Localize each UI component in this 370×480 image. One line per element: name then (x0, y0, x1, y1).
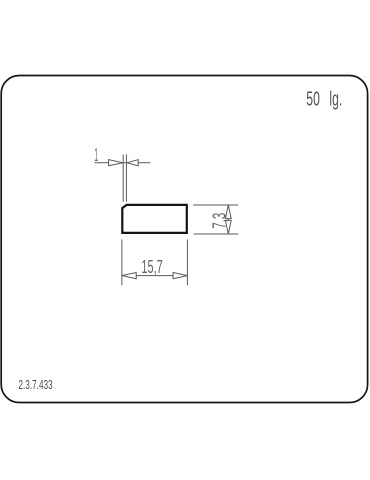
dimension 1 dimension line (95, 162, 151, 164)
svg-text:1: 1 (94, 144, 98, 165)
dimension 7,3 top arrowhead (225, 205, 231, 219)
dimension 1 right arrowhead (127, 160, 138, 166)
dimension 15,7 dimension line (122, 275, 187, 277)
dimension 1 left arrowhead (109, 160, 123, 166)
part outline: bar cross-section with chamfered top-left corner (122, 205, 187, 233)
svg-text:7,3: 7,3 (208, 213, 229, 229)
dimension 7,3 extension line top (193, 204, 238, 206)
svg-text:15,7: 15,7 (141, 256, 162, 277)
dimension 7,3 extension line bottom (194, 233, 239, 235)
dimension 1 extension line left (122, 155, 124, 202)
dimension 15,7 left arrowhead (122, 273, 136, 279)
dimension 1 extension line right (125, 155, 127, 202)
dimension 15,7 right arrowhead (173, 273, 187, 279)
svg-text:2.3.7.433: 2.3.7.433 (18, 377, 52, 392)
dimension 7,3 bottom arrowhead (225, 220, 231, 234)
dimension 15,7 extension line right (186, 239, 188, 285)
dimension 7,3 dimension line (227, 205, 229, 234)
dimension 15,7 extension line left (121, 239, 123, 285)
svg-text:50: 50 (306, 88, 320, 111)
svg-text:lg.: lg. (329, 88, 342, 111)
drawing sheet frame (1, 76, 367, 403)
